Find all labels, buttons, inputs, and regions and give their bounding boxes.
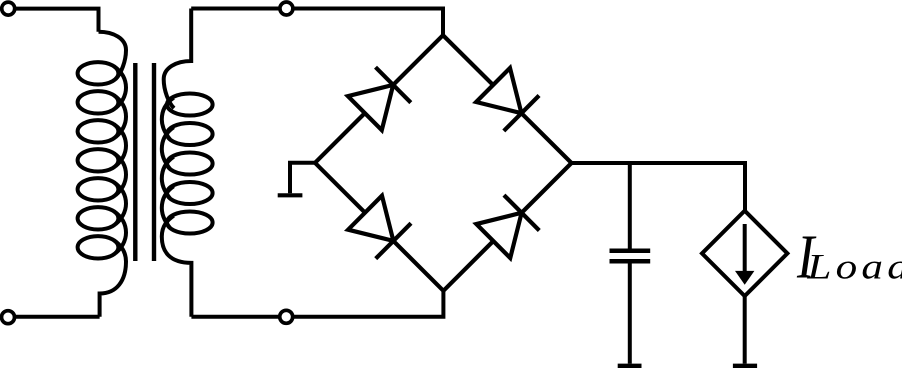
diode D2 [476,68,539,131]
diode D1 [348,67,411,130]
wire bridge left vertex to ground [290,163,315,194]
diode D4 [476,195,539,258]
ground [278,193,303,197]
capacitor C1 [610,251,651,261]
ground capacitor [618,364,642,368]
wire top rail to bridge [191,9,443,36]
diode D3 [348,196,411,259]
wire bridge side T-R [443,35,572,163]
current source I_Load diamond [702,211,787,296]
inductor L2 secondary winding [162,9,213,317]
wire primary top lead [15,9,99,32]
wire bottom rail to bridge [191,291,443,317]
wire current source bottom lead [743,296,747,364]
ground current source [733,364,757,368]
current source arrow [743,224,747,273]
terminal top secondary [280,2,293,15]
wire bridge side L-B [315,163,443,291]
wire capacitor top lead [628,163,632,251]
svg-text:Load: Load [806,247,902,287]
wire bridge side B-R [443,163,571,291]
terminal bottom secondary [280,310,293,323]
wire bridge side L-T [315,35,443,163]
terminal top primary [2,2,15,15]
transformer core [135,63,154,261]
wire capacitor bottom lead [628,261,632,363]
wire bridge output rail [572,163,746,211]
inductor L1 primary winding [78,32,126,317]
wire primary bottom lead [14,315,99,319]
terminal bottom primary [2,311,15,324]
